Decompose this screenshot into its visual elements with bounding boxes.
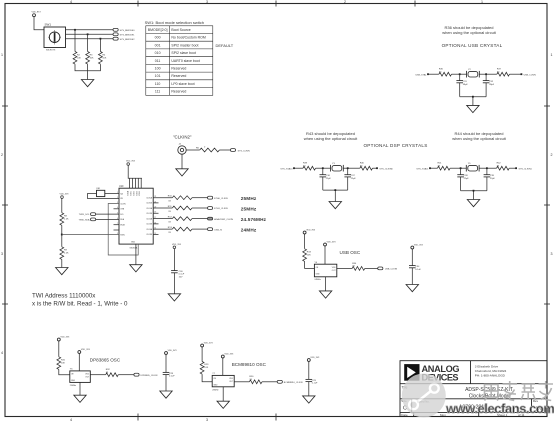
svg-text:4: 4 (70, 0, 72, 4)
svg-text:SYS_CLKIN: SYS_CLKIN (238, 150, 250, 152)
resistor R6 0 (196, 147, 219, 152)
wire R40 to node (373, 167, 378, 169)
wire power to C30 (173, 249, 175, 271)
ground pullup chain (56, 268, 68, 275)
note R43 depopulate (304, 131, 358, 141)
svg-text:VDD_3V3: VDD_3V3 (414, 245, 424, 247)
svg-text:Chelmsford, MA 01824: Chelmsford, MA 01824 (475, 369, 507, 373)
resistor R12 33 (168, 217, 192, 224)
wire power to R31 (58, 342, 60, 357)
connector oval DP83865_CLKIN (134, 373, 158, 377)
wire clk output row2 (153, 207, 172, 209)
table text col1 (148, 28, 168, 94)
svg-text:1: 1 (1, 53, 3, 57)
svg-text:22pF: 22pF (351, 178, 357, 180)
title text (465, 387, 513, 400)
wire Y2 to node (479, 73, 486, 75)
svg-text:2: 2 (117, 197, 118, 199)
logo text ANALOG DEVICES (422, 364, 460, 383)
wire to oval row3 (192, 218, 208, 220)
resistor R2 10K (73, 52, 81, 65)
svg-text:VDD3: VDD3 (136, 191, 138, 196)
resistor R33 10K (303, 249, 312, 262)
wire to oval row4 (192, 228, 208, 230)
svg-text:OPTIONAL USB CRYSTAL: OPTIONAL USB CRYSTAL (442, 43, 503, 48)
svg-text:VDD_3V3: VDD_3V3 (126, 161, 136, 163)
svg-text:IRQB: IRQB (120, 225, 125, 227)
svg-text:0.1uF: 0.1uF (415, 269, 421, 271)
svg-text:CLK0B: CLK0B (146, 203, 152, 205)
svg-text:2.2K: 2.2K (64, 252, 69, 254)
svg-text:USB OSC: USB OSC (340, 250, 361, 255)
resistor R30 33 (249, 376, 262, 383)
connector oval USB_XI (208, 228, 223, 232)
svg-text:000: 000 (155, 36, 161, 40)
svg-text:GND: GND (71, 380, 76, 382)
svg-text:CLKIN: CLKIN (120, 203, 126, 205)
junction bmode0 (74, 29, 76, 31)
ground xtal1 (467, 200, 479, 207)
pin numbers left (117, 192, 118, 235)
ground C30 (168, 294, 180, 301)
stub pin left lower (114, 229, 120, 231)
svg-text:SYS_BMODE0: SYS_BMODE0 (120, 30, 136, 32)
svg-text:25MHz: 25MHz (241, 196, 257, 201)
border zone tick left 1 (2, 105, 8, 107)
wire R37 to node (510, 73, 522, 75)
wire power to osc top (324, 247, 326, 265)
logo Analog Devices (404, 364, 419, 381)
svg-text:CLK2B: CLK2B (146, 224, 152, 226)
wire node to R40 (348, 167, 360, 169)
border zone tick top 3 (414, 1, 416, 7)
svg-text:GND: GND (316, 274, 321, 276)
wire R33 to osc (305, 261, 315, 268)
connector oval ADAU1962_CLKIN (208, 217, 234, 221)
svg-text:CLK1B: CLK1B (146, 213, 152, 215)
border zone tick right 3 (544, 303, 550, 305)
connector oval SYS_BMODE0 (113, 28, 135, 32)
svg-text:10K: 10K (204, 367, 208, 369)
wire to R35 (428, 73, 439, 75)
pin numbers right (154, 196, 156, 235)
connector oval USB_CLKIN (378, 267, 398, 271)
svg-text:CLK3A: CLK3A (146, 228, 152, 231)
svg-text:SW-ROT8: SW-ROT8 (46, 50, 56, 52)
svg-text:10K: 10K (102, 57, 106, 59)
oscillator Y7 BCM89810 (212, 373, 234, 391)
svg-text:10K: 10K (61, 362, 65, 364)
wire node to Y3 (323, 167, 331, 169)
wire J4 to R6 (186, 149, 200, 151)
wire power to R33 (304, 235, 306, 249)
address text (475, 364, 507, 377)
svg-text:Date: Date (401, 413, 408, 417)
ground BCM osc (217, 401, 229, 408)
ferrite bead FB1 (87, 188, 119, 198)
wire R29 to osc (202, 374, 212, 382)
resistor R29 10K (200, 362, 209, 375)
wire BCM osc out to R30 (234, 381, 249, 383)
svg-text:24.576MHz: 24.576MHz (241, 217, 267, 222)
wire power to R8 (61, 198, 63, 212)
power VDD C28 (165, 350, 178, 355)
svg-text:22pF: 22pF (464, 178, 470, 180)
wire bmode0 stub down (74, 30, 76, 52)
svg-text:VDD1: VDD1 (131, 191, 133, 196)
svg-text:39pF: 39pF (463, 84, 469, 86)
svg-text:when using the optional circui: when using the optional circuit (304, 136, 358, 141)
svg-text:VDD4: VDD4 (139, 191, 141, 196)
svg-text:4: 4 (1, 351, 3, 355)
ground DP osc (74, 395, 86, 402)
capacitor C29 0.1uF (306, 362, 319, 396)
svg-text:SCL: SCL (120, 214, 124, 216)
wire R34 to oval (365, 267, 378, 269)
resistor R32 33 (106, 369, 119, 377)
node USB_CLKIN (521, 73, 537, 76)
svg-text:VDD_3V3: VDD_3V3 (306, 230, 316, 232)
power VDD BCM osc (221, 354, 234, 359)
power VDD BCM osc pullup (201, 343, 214, 348)
junction bmode2 (100, 38, 102, 40)
resistor R35 33 (439, 69, 452, 77)
svg-text:when using the optional circui: when using the optional circuit (452, 136, 506, 141)
svg-text:3: 3 (1, 252, 3, 256)
svg-text:SYS_BMODE1: SYS_BMODE1 (120, 35, 136, 37)
connector oval ETH0_CLKIN (208, 196, 228, 200)
wire loop pin3 around bottom (108, 204, 138, 256)
capacitor C28 0.1uF (163, 355, 176, 391)
junction left of Y5 (460, 167, 462, 169)
ground xtal0 (329, 202, 341, 209)
svg-text:39pF: 39pF (489, 84, 495, 86)
capacitor C32 (483, 74, 495, 97)
svg-text:SYS_XTAL1: SYS_XTAL1 (416, 167, 429, 170)
wire power to BCM osc top (222, 359, 224, 376)
svg-text:BCM89810_CLKIN: BCM89810_CLKIN (284, 382, 303, 384)
resistor R37 33 (497, 69, 510, 77)
svg-text:TWI0_SCL: TWI0_SCL (79, 214, 90, 216)
wire R8 to junction (61, 225, 63, 247)
watermark logo circle (402, 374, 446, 418)
svg-text:3: 3 (117, 202, 118, 204)
svg-text:111: 111 (155, 90, 160, 94)
svg-text:CLK3B: CLK3B (146, 234, 152, 236)
border zone tick bottom 1 (137, 414, 139, 421)
svg-text:3 Elizabeth Drive: 3 Elizabeth Drive (475, 364, 499, 368)
stub IRQB pin (114, 224, 120, 226)
wire power to R29 (201, 348, 203, 362)
svg-text:CLK0A: CLK0A (146, 197, 152, 200)
svg-text:SYS_BMODE2: SYS_BMODE2 (120, 39, 136, 41)
node SYS_CLKIN1 (515, 167, 532, 170)
wire power to top pin bus (128, 165, 142, 178)
border zone tick right 2 (544, 204, 550, 206)
wire bmode1 stub down (87, 34, 89, 51)
switch SW1 (44, 23, 66, 52)
node SYS_XTAL1 (416, 167, 431, 170)
capacitor C30 0.1uF (171, 271, 185, 279)
svg-text:VDD_3V3: VDD_3V3 (168, 350, 178, 352)
border zone labels top (70, 0, 483, 4)
wire R39 to node (316, 167, 323, 169)
svg-text:VDD_EXT: VDD_EXT (32, 12, 42, 14)
stub pins right side (153, 203, 158, 235)
capacitor C36 (320, 168, 332, 190)
svg-text:0.1uF: 0.1uF (179, 274, 185, 276)
svg-text:PH: 1-800-ANALOGD: PH: 1-800-ANALOGD (475, 373, 506, 377)
wire DP osc to ground (79, 382, 81, 395)
power VDD C34 (411, 245, 424, 250)
svg-text:VDD_3V3: VDD_3V3 (81, 349, 91, 351)
power VDD C29 (307, 357, 320, 362)
wire power to DP osc top (78, 354, 80, 371)
svg-text:4: 4 (117, 207, 118, 209)
wire SW1 out0 (66, 29, 114, 31)
resistor R13 33 (168, 227, 192, 234)
resistor R39 33 (303, 163, 316, 171)
oscillator Y4 USB (314, 262, 336, 281)
svg-text:CLK2A: CLK2A (146, 217, 152, 220)
svg-text:4: 4 (70, 418, 72, 422)
junction right of Y2 (485, 73, 487, 75)
wire osc to ground (325, 277, 327, 291)
svg-text:2: 2 (1, 153, 3, 157)
oscillator Y6 DP83865 (70, 369, 91, 387)
border zone tick left 2 (2, 204, 8, 206)
border zone labels bottom (70, 418, 208, 422)
wire Y5 to node (479, 167, 487, 169)
svg-text:3: 3 (206, 418, 208, 422)
svg-text:OPTIONAL DSP CRYSTALS: OPTIONAL DSP CRYSTALS (363, 143, 427, 148)
resistor R4 10K (99, 52, 107, 65)
svg-text:UART0 slave boot: UART0 slave boot (171, 59, 199, 63)
wire J4 to ground (181, 154, 183, 169)
svg-text:25MHz: 25MHz (212, 390, 218, 392)
wire resistors to bus (75, 64, 100, 79)
svg-text:x is the R/W bit. Read - 1, W: x is the R/W bit. Read - 1, Write - 0 (32, 301, 128, 308)
svg-text:U10: U10 (119, 185, 124, 188)
svg-text:0.1uF: 0.1uF (169, 376, 175, 378)
svg-text:3: 3 (551, 252, 553, 256)
wire Y3 to node (343, 167, 347, 169)
svg-text:Reserved: Reserved (171, 74, 186, 78)
svg-text:DP83865 OSC: DP83865 OSC (90, 358, 121, 363)
wires top pins of U10 (130, 178, 142, 188)
junction left of Y2 (459, 73, 461, 75)
svg-text:25MHz: 25MHz (241, 206, 257, 211)
svg-text:SSEL: SSEL (120, 234, 125, 236)
svg-text:010: 010 (155, 51, 161, 55)
junction pullup tap (61, 234, 63, 236)
svg-text:SW1: SW1 (45, 23, 52, 27)
svg-text:BCM89810 OSC: BCM89810 OSC (232, 362, 267, 367)
connector oval SYS_CLKIN (230, 149, 250, 153)
node SYS_XTAL0 (280, 167, 295, 170)
resistor R41 33 (438, 163, 451, 171)
power VDD DP osc (78, 349, 91, 354)
table: boot mode selection (146, 26, 213, 96)
wire node to R42 (487, 167, 497, 169)
power VDD USB osc (324, 242, 337, 247)
capacitor C31 (456, 74, 468, 97)
ground USB crystal (467, 105, 479, 112)
note R36 depopulate (442, 25, 496, 35)
wire R42 to node (509, 167, 516, 169)
ground SW1 pulldowns (81, 80, 93, 87)
wire to oval row2 (192, 207, 208, 209)
svg-text:ETH1_CLKIN: ETH1_CLKIN (214, 208, 228, 210)
svg-text:SW1: Boot mode selection switc: SW1: Boot mode selection switch (145, 20, 204, 25)
power VDD clock chip (126, 161, 136, 166)
wire C30 to ground (173, 273, 175, 294)
svg-text:VDD_3V3: VDD_3V3 (327, 242, 337, 244)
border zone tick left 3 (2, 303, 8, 305)
capacitor C39 (484, 168, 496, 191)
wire caps common (460, 97, 486, 106)
connector oval TWI0_SCL (79, 213, 119, 216)
svg-text:VDD_3V3: VDD_3V3 (204, 343, 214, 345)
junction left of Y3 (322, 167, 324, 169)
svg-text:SYS_CLKIN1: SYS_CLKIN1 (519, 168, 533, 170)
ground J4 (176, 169, 188, 176)
resistor R34 33 (352, 263, 365, 271)
wire clk output row1 (153, 197, 172, 199)
wire caps common xtal0 (323, 190, 348, 201)
svg-text:25MHz: 25MHz (70, 385, 76, 387)
connector J4 CLKIN (178, 144, 186, 155)
wire to R39 (294, 167, 303, 169)
power VDD pullup chain (60, 194, 70, 199)
border zone tick top 2 (275, 1, 277, 7)
svg-text:when using the optional circui: when using the optional circuit (442, 30, 496, 35)
svg-text:10K: 10K (90, 57, 94, 59)
connector oval SYS_BMODE1 (113, 33, 135, 37)
svg-text:www.elecfans.com: www.elecfans.com (445, 401, 554, 416)
border zone tick bottom 2 (275, 414, 277, 421)
svg-text:VDD_3V3: VDD_3V3 (60, 194, 70, 196)
wire clk output row3 (153, 218, 172, 220)
ground C34 (406, 285, 418, 292)
border zone labels left (1, 53, 3, 355)
wire clk output row4 (153, 228, 172, 230)
border zone labels right (551, 53, 553, 256)
border zone tick top 1 (137, 1, 139, 7)
resistor R9 2.2K (60, 247, 69, 260)
svg-text:USB_XI: USB_XI (214, 229, 222, 231)
svg-text:3: 3 (206, 0, 208, 4)
table text col2 (171, 28, 206, 94)
svg-text:VDD_3V3: VDD_3V3 (310, 357, 320, 359)
junction right of Y3 (347, 167, 349, 169)
capacitor C34 0.1uF (409, 250, 422, 285)
svg-text:SPI2 master boot: SPI2 master boot (171, 43, 198, 47)
connector oval ETH1_CLKIN (208, 207, 228, 211)
wire DP osc out to R32 (90, 374, 105, 376)
ground U10 (130, 265, 142, 272)
svg-text:011: 011 (155, 59, 161, 63)
svg-text:24MHz: 24MHz (241, 227, 257, 232)
svg-text:ADAU1962_CLKIN: ADAU1962_CLKIN (214, 218, 233, 221)
svg-text:10K: 10K (307, 254, 311, 256)
wire to oval row1 (192, 197, 208, 199)
svg-text:No boot/Custom ROM: No boot/Custom ROM (171, 36, 206, 40)
junction right of Y5 (486, 167, 488, 169)
svg-text:VDD_3V3: VDD_3V3 (60, 337, 70, 339)
connector oval TWI0_SDA (79, 218, 119, 222)
svg-text:SI5356A: SI5356A (130, 247, 138, 250)
svg-text:0.1uF: 0.1uF (312, 383, 318, 385)
wire to R41 (430, 167, 438, 169)
svg-text:GND: GND (131, 242, 136, 244)
svg-text:VDD_3V3: VDD_3V3 (224, 354, 234, 356)
svg-text:2: 2 (344, 0, 346, 4)
wire R41 to node (450, 167, 461, 169)
svg-text:16V: 16V (179, 276, 183, 278)
svg-text:7: 7 (117, 223, 118, 225)
connector oval SYS_BMODE2 (113, 37, 135, 41)
svg-text:1: 1 (117, 192, 118, 194)
svg-text:1: 1 (481, 0, 483, 4)
wire BCM osc to ground (222, 387, 224, 401)
resistor R31 10K (57, 357, 66, 370)
wire R6 to oval (219, 149, 230, 151)
power VDD_EXT (SW1) (32, 12, 42, 18)
wire caps common xtal1 (461, 191, 487, 200)
svg-text:BMODE[2:0]: BMODE[2:0] (148, 28, 168, 32)
crystal Y5 (466, 163, 479, 171)
svg-text:USB_CLKIN: USB_CLKIN (524, 74, 537, 76)
power VDD DP osc pullup (57, 337, 70, 342)
wire SW1 out1 (66, 33, 114, 35)
resistor R8 2.2K (60, 213, 69, 226)
svg-text:2: 2 (551, 153, 553, 157)
svg-text:ETH0_CLKIN: ETH0_CLKIN (214, 198, 228, 200)
svg-text:CLK1A: CLK1A (146, 207, 152, 210)
wire R35 to node (452, 73, 460, 75)
resistor R10 33 (168, 196, 192, 203)
clock generator U10 (119, 185, 153, 250)
svg-text:10K: 10K (77, 57, 81, 59)
capacitor C38 (457, 168, 469, 191)
resistor R40 33 (360, 163, 373, 171)
svg-text:DP83865_CLKIN: DP83865_CLKIN (141, 375, 158, 377)
svg-text:USB_XTAL: USB_XTAL (415, 73, 427, 76)
svg-text:SPI2 slave boot: SPI2 slave boot (171, 51, 196, 55)
svg-text:110: 110 (155, 82, 161, 86)
svg-text:SYS_XTAL0: SYS_XTAL0 (280, 167, 293, 170)
resistor R42 33 (497, 163, 510, 171)
power VDD decoupling cap (172, 244, 182, 249)
ground C29 (303, 396, 315, 403)
svg-text:VDDA: VDDA (127, 190, 130, 196)
note R44 depopulate (452, 131, 506, 141)
wire R31 to osc (59, 369, 70, 374)
crystal Y3 (331, 163, 344, 171)
wire R30 to oval (262, 381, 277, 383)
svg-text:SYS_CLKIN0: SYS_CLKIN0 (379, 168, 393, 170)
svg-text:Boot Source: Boot Source (171, 28, 190, 32)
wire node to R37 (486, 73, 497, 75)
crystal Y2 (467, 69, 480, 77)
resistor R11 33 (168, 206, 192, 213)
wire U10 gnd pin (135, 244, 137, 265)
svg-text:TWI0_SDA: TWI0_SDA (79, 219, 90, 222)
ground C28 (160, 391, 172, 398)
wire node to Y5 (461, 167, 467, 169)
wire R32 to oval (118, 374, 134, 376)
